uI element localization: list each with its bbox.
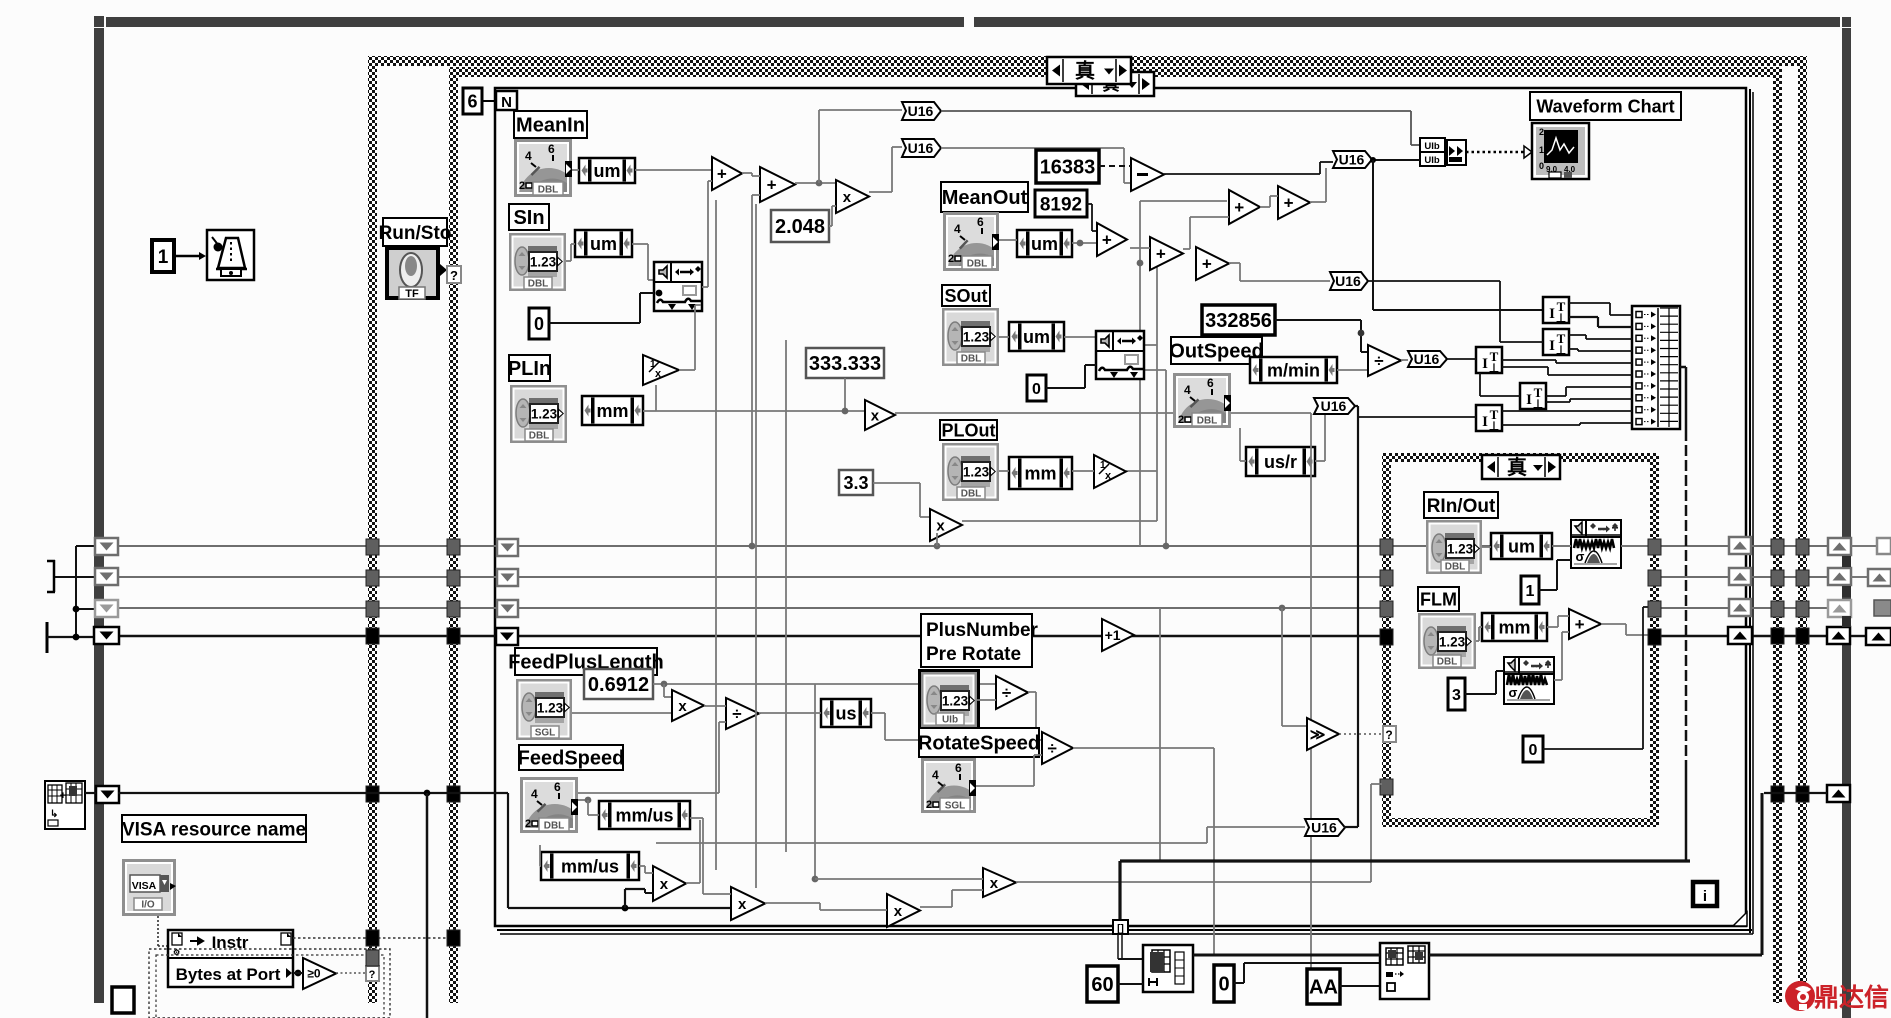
wire to converter D	[1479, 373, 1481, 396]
RotateSpeed label	[918, 728, 1040, 757]
svg-text:1.23: 1.23	[530, 255, 557, 270]
wire 0.6912 to multH	[663, 684, 665, 697]
svg-text:um: um	[1031, 234, 1058, 254]
wire MeanOut knob to um3	[999, 239, 1017, 241]
tunnel while-left y786	[366, 786, 379, 802]
for-loop SR right y537	[1729, 537, 1751, 554]
wire C out up x1157	[962, 520, 1157, 522]
wire usr to u16-6	[1315, 460, 1325, 462]
svg-text:2: 2	[1178, 414, 1184, 426]
thick wire y861	[1120, 859, 1690, 862]
svg-text:us/r: us/r	[1264, 452, 1297, 472]
wire us right	[871, 712, 885, 714]
svg-text:1: 1	[1539, 145, 1544, 155]
reciprocal operator 2	[1094, 455, 1126, 488]
svg-text:MeanOut: MeanOut	[942, 187, 1028, 209]
wire u16-6 down x1358	[1355, 405, 1358, 407]
wire 0 to sine node	[549, 322, 640, 324]
tunnel case1-left y570	[447, 570, 460, 586]
case structure 2 border	[1382, 453, 1659, 827]
svg-text:1: 1	[158, 247, 169, 268]
express node tone 1	[1096, 331, 1144, 379]
wire 60 to node1	[1118, 983, 1143, 985]
svg-text:TF: TF	[405, 288, 419, 300]
FeedPlusLength label	[508, 648, 664, 675]
wire FeedSpeed to mmus1	[578, 799, 588, 801]
wire N1 out down	[1028, 691, 1036, 693]
svg-text:0.6912: 0.6912	[588, 674, 649, 696]
svg-text:DBL: DBL	[528, 279, 549, 290]
svg-text:6: 6	[554, 780, 561, 794]
constant 0 d	[1214, 965, 1234, 1002]
svg-text:PLIn: PLIn	[508, 358, 551, 380]
wire 0b to express1	[1046, 387, 1085, 389]
wire D1 to D2	[1130, 247, 1150, 249]
wire L to M	[920, 906, 952, 908]
Waveform Chart label	[1530, 92, 1681, 120]
svg-text:U16: U16	[908, 103, 934, 119]
wire um5 to spectral1	[1552, 545, 1571, 547]
tunnels case2 right	[1648, 539, 1661, 555]
shift register right 2	[1828, 568, 1851, 585]
swap bytes converter D	[1520, 383, 1546, 411]
multiply operator A3	[836, 180, 869, 213]
for-loop SR right y568	[1729, 568, 1751, 585]
svg-text:÷: ÷	[1048, 739, 1057, 758]
wire A3 to U16-2	[869, 191, 892, 193]
wire B out	[895, 412, 1311, 414]
svg-text:2: 2	[948, 253, 954, 265]
wire 1b to spectral1	[1539, 589, 1557, 591]
svg-text:?: ?	[1385, 728, 1392, 742]
svg-text:I: I	[1549, 338, 1555, 354]
svg-text:6: 6	[467, 91, 477, 111]
unit label mm/us 2	[541, 852, 639, 880]
svg-text:DBL: DBL	[529, 431, 550, 442]
dashed wire gte to case2 terminal	[1339, 733, 1383, 735]
conversion u16 tag 6	[1314, 398, 1355, 414]
wire 333.333 down	[844, 378, 846, 411]
svg-text:真: 真	[1507, 455, 1527, 479]
svg-text:⊥: ⊥	[1489, 361, 1499, 375]
svg-text:mm: mm	[596, 401, 628, 421]
svg-text:σ: σ	[1509, 685, 1518, 700]
RIn/Out label	[1424, 492, 1498, 518]
wire vertical x1311	[1310, 413, 1312, 969]
svg-text:PLOut: PLOut	[942, 420, 996, 440]
wire spectral2 to addG	[1554, 679, 1562, 681]
svg-text:DBL: DBL	[967, 259, 988, 270]
cluster terminal bracket 2	[46, 622, 49, 653]
svg-text:0: 0	[534, 314, 544, 334]
MeanOut label	[941, 182, 1028, 212]
wire mm1 bus right	[656, 410, 865, 412]
svg-text:um: um	[594, 161, 621, 181]
svg-text:Run/Sto: Run/Sto	[379, 223, 452, 244]
svg-text:真: 真	[1075, 59, 1095, 83]
array constant node left	[45, 781, 85, 829]
wait-ms metronome node	[207, 230, 254, 280]
shift register right 1	[1828, 538, 1851, 555]
wire FeedSpeed up	[578, 792, 719, 794]
svg-text:I: I	[1482, 414, 1488, 430]
wire 1 to metronome	[174, 255, 203, 258]
wire vertical x752 to bus1	[751, 195, 753, 546]
wire U16-2 out to subtract	[941, 147, 1124, 149]
svg-text:60: 60	[1091, 974, 1113, 996]
svg-text:⊥: ⊥	[1556, 343, 1566, 357]
svg-text:MeanIn: MeanIn	[516, 115, 585, 137]
divide operator I	[726, 698, 759, 729]
svg-text:0: 0	[1218, 974, 1229, 996]
FeedPlusLength numeric control	[516, 679, 572, 740]
sine waveform node	[654, 262, 702, 311]
wire long gray y843	[656, 842, 1207, 844]
wire build array out	[1680, 366, 1686, 369]
while loop left border	[368, 66, 377, 1003]
terminal ? bottom	[366, 966, 379, 981]
swap bytes converter B	[1543, 329, 1569, 357]
dashed wire gt0 to terminal	[336, 972, 366, 974]
SIn numeric control	[509, 233, 566, 291]
svg-text:FeedSpeed: FeedSpeed	[518, 748, 625, 770]
wire K to L	[765, 902, 820, 904]
svg-text:U16: U16	[1311, 820, 1337, 836]
RIn/Out numeric control	[1426, 520, 1482, 574]
wire N2 out	[1073, 747, 1214, 749]
wire U16-1 to UIb	[941, 110, 1411, 112]
svg-text:4: 4	[525, 149, 532, 163]
wire tunnel779 down x1373	[1370, 784, 1372, 882]
divide operator N1	[996, 676, 1028, 709]
svg-text:mm: mm	[1498, 617, 1530, 637]
svg-text:mm: mm	[1024, 463, 1056, 483]
wire SOut to um4	[999, 336, 1009, 338]
svg-text:I: I	[1526, 392, 1532, 408]
wire 3 to spectral2	[1465, 693, 1496, 695]
wire up to U16-1	[818, 110, 820, 183]
tunnel while-right y786	[1796, 786, 1809, 802]
svg-text:σ: σ	[1576, 549, 1585, 564]
tunnel case1-left y601	[447, 601, 460, 617]
for-loop SR left y628	[496, 628, 518, 645]
wire node1 to node2 thick	[1193, 954, 1380, 957]
conversion U16 tag 7	[1305, 819, 1345, 836]
dotted wire to waveform chart	[1466, 151, 1524, 154]
tunnel while-left y628	[366, 628, 379, 644]
constant 0 b	[1027, 375, 1046, 401]
conversion U16 tag 4	[1330, 272, 1368, 290]
svg-text:+1: +1	[1105, 627, 1121, 643]
svg-text:I/O: I/O	[141, 900, 155, 911]
svg-text:DBL: DBL	[1445, 562, 1466, 573]
svg-text:RotateSpeed: RotateSpeed	[918, 733, 1040, 755]
svg-text:Waveform Chart: Waveform Chart	[1536, 96, 1674, 116]
wire C lower input from bus	[934, 543, 941, 550]
MeanIn label	[514, 111, 587, 138]
for-loop SR left y569	[497, 569, 518, 586]
conversion U16 tag 3	[1333, 151, 1372, 168]
case structure 1 right border	[1773, 77, 1782, 1003]
svg-text:÷: ÷	[1002, 683, 1011, 702]
wire A2 out	[795, 182, 836, 184]
svg-text:↳: ↳	[50, 809, 58, 820]
PLIn label	[508, 355, 551, 381]
svg-text:SIn: SIn	[513, 207, 544, 229]
tunnel case1-right y570	[1771, 570, 1784, 586]
svg-text:x: x	[843, 189, 852, 206]
svg-text:1.23: 1.23	[963, 330, 990, 345]
svg-text:÷: ÷	[1374, 351, 1383, 370]
wire um2 to sine node	[632, 243, 648, 245]
svg-text:U16: U16	[1414, 351, 1440, 367]
svg-text:4: 4	[531, 787, 538, 801]
svg-text:1.23: 1.23	[537, 701, 564, 716]
wire left sr links	[55, 576, 95, 578]
svg-text:+: +	[1575, 615, 1585, 634]
svg-text:16383: 16383	[1040, 157, 1096, 179]
for-loop SR right y627	[1728, 627, 1752, 644]
add operator D1	[1097, 223, 1127, 256]
svg-text:⊥: ⊥	[1556, 311, 1566, 325]
wire bus1 gray	[118, 545, 1843, 547]
svg-text:Pre Rotate: Pre Rotate	[926, 644, 1021, 665]
shift register left 1	[95, 538, 118, 555]
svg-text:1: 1	[1526, 583, 1535, 600]
while loop right border	[1798, 66, 1807, 1003]
wire FeedPlusLength to multH	[572, 712, 672, 714]
tunnel while-left y539	[366, 539, 379, 555]
svg-text:um: um	[590, 234, 617, 254]
wire node2 out	[1429, 954, 1762, 957]
case 2 selector label	[1076, 72, 1154, 96]
unit label m/min	[1250, 357, 1337, 383]
svg-text:x: x	[894, 903, 903, 920]
MeanOut knob control	[943, 212, 1006, 303]
wire F to U16-5	[1401, 359, 1408, 361]
byte split UIb boxes	[1420, 138, 1445, 152]
wire vertical x1140 with dot	[1140, 200, 1227, 202]
case 1 selector label	[1047, 57, 1131, 84]
svg-text:6: 6	[955, 761, 962, 775]
svg-text:2: 2	[519, 180, 525, 192]
svg-text:SGL: SGL	[535, 728, 556, 739]
svg-text:0: 0	[1539, 161, 1544, 171]
wire reciprocal out	[679, 369, 695, 371]
wire um3 out with dot	[1072, 242, 1097, 244]
svg-text:SOut: SOut	[945, 286, 988, 306]
OutSpeed label	[1169, 337, 1263, 364]
multiply operator J	[653, 866, 686, 901]
wire bus4 black	[94, 635, 1385, 637]
VISA resource control	[122, 859, 176, 916]
wire E1 to E2	[1260, 206, 1270, 208]
vertical gray wires mid	[715, 200, 717, 870]
wire U16-4 to converter B	[1368, 280, 1500, 282]
svg-text:SGL: SGL	[945, 801, 966, 812]
wire 2.048 to A3	[829, 225, 832, 227]
PLOut label	[940, 420, 997, 440]
constant 333.333	[806, 348, 884, 378]
constant 2.048	[771, 210, 829, 242]
shift register left 5	[96, 786, 119, 803]
thick wire x1120 down	[1118, 861, 1121, 921]
wire addG out	[1601, 623, 1626, 625]
wire SIn to um	[566, 260, 571, 262]
tunnel case1-left y930	[447, 930, 460, 946]
add operator A2	[760, 167, 795, 202]
wire express SOut out1	[1144, 344, 1157, 346]
SIn label	[509, 204, 549, 230]
tunnel case1-left y628	[447, 628, 460, 644]
svg-text:N: N	[501, 94, 512, 111]
wire RInOut to um5	[1482, 546, 1491, 548]
tunnel while-left y570	[366, 570, 379, 586]
wire mm3 to addG	[1547, 626, 1558, 628]
tunnel while-left y930	[366, 930, 379, 946]
svg-text:≥0: ≥0	[307, 967, 321, 981]
tunnel while-right y628	[1796, 628, 1809, 644]
divide operator F	[1368, 345, 1401, 376]
svg-text:6: 6	[1207, 376, 1214, 390]
tunnels case2 left	[1380, 539, 1393, 555]
stack nubs right bar	[1842, 556, 1851, 567]
svg-text:mm/us: mm/us	[561, 856, 619, 876]
svg-text:U16: U16	[1339, 152, 1365, 168]
dotted wire VISA down	[157, 916, 159, 946]
unit label um 1	[579, 158, 635, 183]
wire OutSpeed to usr	[1239, 428, 1241, 461]
wires converters to build array	[1569, 302, 1610, 304]
constant 6	[463, 88, 482, 114]
svg-text:+: +	[1102, 230, 1112, 249]
svg-text:x: x	[678, 698, 687, 715]
multiply operator B	[865, 400, 895, 430]
wire um4 to express1	[1064, 336, 1096, 338]
PlusNumber numeric control	[918, 669, 980, 730]
unit label um 4	[1009, 322, 1064, 351]
svg-text:2: 2	[1539, 127, 1544, 137]
shift register left 2	[95, 568, 118, 585]
svg-text:x: x	[655, 368, 662, 380]
svg-text:⊥: ⊥	[1533, 397, 1543, 411]
wire 0.6912 out	[653, 683, 996, 685]
tunnel while-right y601	[1796, 601, 1809, 617]
wire y793 right segment	[1764, 792, 1827, 794]
svg-text:RIn/Out: RIn/Out	[1427, 496, 1496, 517]
FeedSpeed knob control	[520, 777, 585, 865]
svg-text:VISA resource name: VISA resource name	[122, 819, 306, 840]
svg-text:+: +	[1284, 193, 1294, 212]
svg-text:m/min: m/min	[1267, 360, 1320, 380]
svg-text:8192: 8192	[1040, 194, 1082, 215]
RotateSpeed knob control	[921, 758, 983, 844]
svg-text:Bytes at Port: Bytes at Port	[176, 965, 281, 984]
subtract operator	[1131, 158, 1164, 191]
svg-text:⊥: ⊥	[1489, 419, 1499, 433]
wire x427 vertical down	[426, 793, 429, 1018]
indexing tunnel []	[1113, 920, 1128, 934]
svg-text:UIb: UIb	[942, 715, 958, 726]
svg-text:+: +	[60, 790, 66, 802]
add operator A1	[712, 157, 742, 190]
svg-text:x: x	[660, 876, 669, 893]
svg-text:x: x	[738, 896, 747, 913]
waveform chart terminal icon	[1532, 123, 1589, 179]
multiply operator H	[672, 690, 704, 721]
svg-text:I: I	[1549, 306, 1555, 322]
swap bytes converter A	[1543, 297, 1569, 325]
case structure 1 left border	[449, 77, 458, 1003]
wire mm1 to reciprocal	[643, 410, 656, 412]
case 2 selector label	[1482, 455, 1560, 479]
histogram node 1	[1143, 945, 1193, 992]
unit label um 2	[575, 230, 632, 257]
unit label us/r	[1246, 447, 1315, 476]
wire array vertical dashed	[1685, 430, 1688, 760]
conversion U16 tag 5	[1408, 351, 1447, 367]
multiply operator M	[983, 868, 1016, 897]
wire reciprocal2 out	[1126, 470, 1157, 472]
svg-text:DBL: DBL	[961, 489, 982, 500]
join number node	[1447, 140, 1466, 165]
svg-text:UIb: UIb	[1424, 141, 1440, 152]
svg-text:+: +	[767, 175, 777, 194]
svg-text:4: 4	[954, 222, 961, 236]
build array node	[1632, 306, 1680, 429]
svg-text:+: +	[1156, 244, 1166, 263]
wire dot down to gte	[1279, 605, 1286, 612]
wire H to I	[704, 705, 726, 707]
constant 1 b	[1521, 576, 1539, 604]
wire x1358 to converter E	[1358, 416, 1476, 418]
constant 1 (wait)	[152, 240, 174, 272]
for-loop SR left y539	[497, 539, 518, 556]
VISA resource name label	[122, 815, 306, 842]
unit label mm 1	[582, 396, 643, 425]
svg-text:≫: ≫	[1310, 726, 1326, 743]
wire 0d up	[1234, 982, 1244, 984]
wire D3 to U16-4	[1229, 262, 1240, 264]
svg-text:mm/us: mm/us	[615, 805, 673, 825]
wire RotateSpeed to N2	[976, 785, 1034, 787]
wire M out to U16-7	[1016, 881, 1371, 883]
svg-text:1.23: 1.23	[1439, 635, 1466, 650]
case2 selector terminal ?	[1383, 726, 1396, 742]
unit label mm 3	[1482, 613, 1547, 641]
svg-text:um: um	[1508, 536, 1535, 556]
svg-text:0: 0	[1032, 381, 1041, 398]
case structure 1 top border	[449, 67, 1782, 77]
svg-text:?: ?	[450, 268, 458, 283]
multiply operator L	[887, 894, 920, 927]
wire E2 out	[1310, 201, 1326, 203]
swap bytes converter E	[1476, 405, 1502, 433]
tunnel case1-right y601	[1771, 601, 1784, 617]
svg-text:PlusNumber: PlusNumber	[926, 620, 1039, 641]
constant 0.6912	[584, 669, 653, 699]
svg-text:um: um	[1023, 327, 1050, 347]
svg-text:?: ?	[369, 969, 376, 981]
svg-text:x: x	[990, 875, 999, 892]
wire U16-5 to converter C	[1447, 358, 1476, 360]
svg-text:FLM: FLM	[1420, 589, 1457, 609]
wire A1-A2	[742, 172, 752, 174]
constant 3.3	[839, 470, 873, 495]
svg-text:U16: U16	[1335, 273, 1361, 289]
wire spectral1 out	[1621, 545, 1652, 547]
svg-text:1.23: 1.23	[963, 465, 990, 480]
